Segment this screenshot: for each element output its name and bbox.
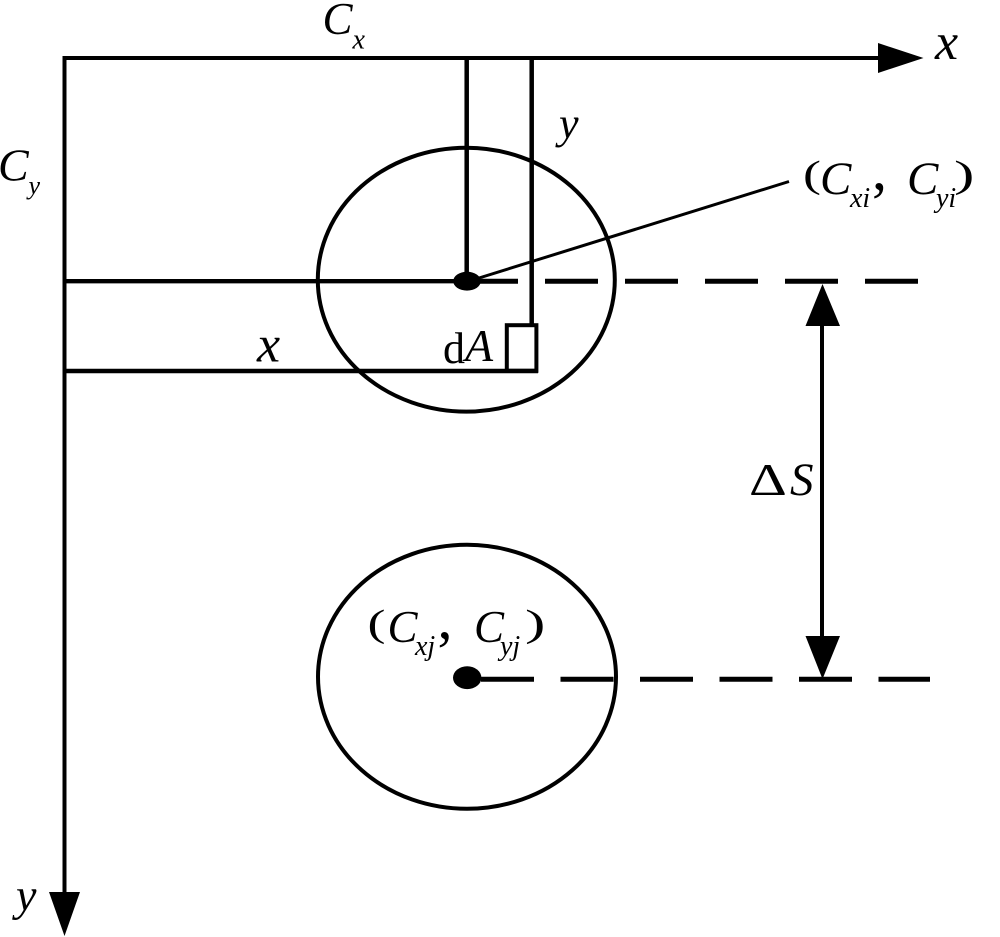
centroid dot i [453, 272, 481, 291]
horizontal line from Cy to centroid i [63, 279, 459, 283]
horizontal line x for dA [63, 369, 539, 374]
svg-text:C: C [907, 153, 939, 205]
centroid dot j [453, 666, 481, 689]
projection line from Cx to centroid i [464, 56, 469, 276]
label C_x [323, 0, 366, 56]
label (C_xj, C_yj) [368, 585, 546, 662]
svg-text:,: , [872, 136, 887, 202]
circle j [318, 545, 616, 809]
x-axis line [63, 56, 882, 60]
svg-text:C: C [323, 0, 354, 44]
leader line to centroid label i [471, 182, 789, 281]
label dA [443, 320, 494, 373]
svg-text:y: y [26, 171, 41, 200]
Delta-S bottom arrowhead [806, 636, 841, 679]
svg-text:): ) [525, 603, 545, 645]
svg-text:Δ: Δ [749, 455, 787, 505]
svg-text:x: x [352, 25, 366, 56]
svg-text:(: ( [803, 155, 821, 196]
circle i [318, 148, 615, 412]
y-axis arrowhead [49, 892, 80, 936]
label (C_xi, C_yi) [803, 136, 974, 214]
svg-text:x: x [934, 14, 958, 71]
svg-text:xi: xi [849, 183, 870, 214]
dashed centerline through centroid j [481, 677, 930, 682]
dashed centerline through centroid i [465, 279, 918, 284]
label C_y [0, 140, 41, 201]
svg-text:xj: xj [414, 631, 435, 662]
Delta-S dimension line [820, 290, 824, 672]
svg-text:d: d [443, 324, 465, 373]
svg-text:(: ( [368, 604, 386, 645]
svg-text:yj: yj [497, 631, 520, 662]
label Delta S [749, 454, 814, 506]
svg-text:S: S [790, 454, 814, 506]
svg-text:yi: yi [933, 183, 956, 214]
svg-text:C: C [820, 153, 852, 205]
x-axis arrowhead [878, 43, 924, 73]
y-axis line [63, 56, 67, 895]
svg-text:A: A [462, 320, 494, 371]
svg-text:y: y [555, 99, 579, 148]
projection line y for dA [529, 56, 534, 326]
svg-text:): ) [954, 154, 974, 196]
svg-text:x: x [256, 317, 280, 374]
svg-text:y: y [12, 870, 37, 921]
svg-text:,: , [438, 585, 453, 651]
svg-text:C: C [388, 602, 419, 652]
svg-text:C: C [0, 140, 30, 191]
dA square [507, 325, 537, 371]
Delta-S top arrowhead [806, 284, 841, 326]
